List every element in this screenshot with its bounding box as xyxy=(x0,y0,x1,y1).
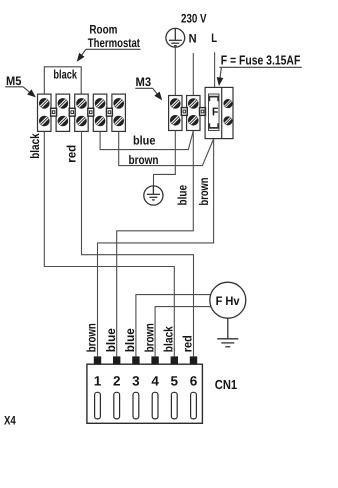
svg-text:brown: brown xyxy=(85,323,99,352)
M5 terminal 1 screws xyxy=(39,98,49,108)
svg-text:5: 5 xyxy=(171,373,179,388)
earth symbol (internal) xyxy=(144,186,163,205)
svg-text:blue: blue xyxy=(123,328,137,352)
svg-text:Thermostat: Thermostat xyxy=(88,36,140,50)
svg-text:4: 4 xyxy=(151,373,159,388)
svg-text:F Hv: F Hv xyxy=(216,294,240,308)
M3 link 2-fuse xyxy=(200,108,206,116)
CN1 pin numbers xyxy=(94,373,198,388)
svg-text:red: red xyxy=(181,335,195,352)
svg-text:N: N xyxy=(189,31,197,45)
terminal block M3 xyxy=(169,96,200,131)
svg-text:blue: blue xyxy=(104,328,118,352)
svg-text:X4: X4 xyxy=(4,413,16,427)
M5 link 4-5 xyxy=(106,108,112,116)
wire brown M5-5 to fuse bottom xyxy=(119,131,214,165)
M5 terminal 4 screws xyxy=(95,98,105,108)
M3 link 1-2 xyxy=(181,108,187,116)
svg-text:1: 1 xyxy=(94,373,102,388)
wire black M5-1 to CN1 pin5 xyxy=(44,131,174,356)
connector CN1 xyxy=(87,364,202,423)
svg-text:black: black xyxy=(28,133,42,159)
svg-text:red: red xyxy=(64,145,78,163)
M5 terminal 5 screws xyxy=(114,98,124,108)
M5 terminal 2 screws xyxy=(58,98,68,108)
terminal block M5 xyxy=(38,94,126,131)
M3 terminal 2 screws xyxy=(188,98,198,108)
svg-text:blue: blue xyxy=(133,133,155,147)
leader arrow fuse xyxy=(219,67,302,84)
wire brown fuse to CN1 pin1 xyxy=(98,139,214,357)
svg-text:6: 6 xyxy=(190,373,198,388)
leader arrow M3 xyxy=(135,88,161,99)
wire blue FHv to CN1 pin3 xyxy=(136,295,211,357)
svg-text:brown: brown xyxy=(142,323,156,352)
wire brown FHv to CN1 pin4 xyxy=(155,307,211,357)
wire red M5-3 to CN1 pin6 xyxy=(82,131,194,356)
CN1 pin terminals xyxy=(94,356,197,364)
M5 link 1-2 xyxy=(51,108,57,116)
leader arrow thermostat xyxy=(78,49,141,60)
ground (below F Hv) xyxy=(217,318,238,347)
M5 link 3-4 xyxy=(88,108,94,116)
fuse holder F xyxy=(205,87,233,138)
room thermostat bracket xyxy=(44,67,81,94)
M5 terminal 3 screws xyxy=(76,98,86,108)
svg-text:F: F xyxy=(212,107,218,119)
CN1 slots xyxy=(95,392,197,419)
fuse holder screws xyxy=(224,99,233,108)
svg-text:Room: Room xyxy=(89,23,117,37)
svg-text:2: 2 xyxy=(113,373,121,388)
wire L to fuse top xyxy=(214,52,216,87)
earth symbol (supply) xyxy=(166,28,185,47)
svg-text:brown: brown xyxy=(129,153,159,167)
svg-text:F = Fuse 3.15AF: F = Fuse 3.15AF xyxy=(221,53,301,68)
svg-text:black: black xyxy=(162,326,176,352)
M5 link 2-3 xyxy=(69,108,75,116)
svg-text:brown: brown xyxy=(197,178,211,206)
svg-text:black: black xyxy=(53,67,77,81)
svg-text:230 V: 230 V xyxy=(181,11,207,25)
wire N to M3 terminal 2 xyxy=(192,53,194,96)
svg-text:M3: M3 xyxy=(136,75,152,89)
svg-text:CN1: CN1 xyxy=(215,377,237,392)
svg-text:blue: blue xyxy=(175,185,189,206)
svg-text:M5: M5 xyxy=(6,74,21,88)
wire M3-1 to internal earth xyxy=(154,131,176,187)
wire earth to M3 terminal 1 xyxy=(174,47,176,95)
M3 terminal 1 screws xyxy=(170,98,180,108)
svg-text:3: 3 xyxy=(132,373,140,388)
wire blue M3-2 to CN1 pin2 xyxy=(117,131,194,357)
fan motor F Hv xyxy=(210,282,246,318)
svg-text:L: L xyxy=(211,31,217,45)
leader arrow M5 xyxy=(5,87,35,97)
wire blue M5-4 to M3-2 xyxy=(100,131,193,150)
